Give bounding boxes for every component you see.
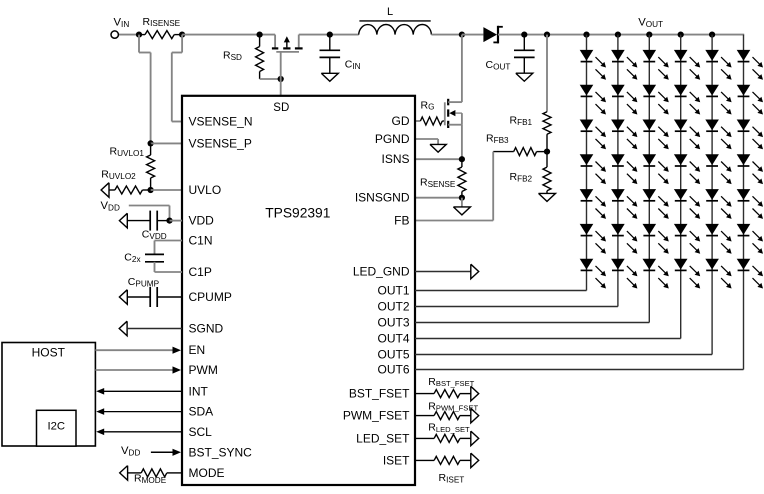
svg-text:TPS92391: TPS92391 <box>265 206 330 221</box>
pin PWM_FSET label <box>343 409 410 423</box>
svg-text:OUT4: OUT4 <box>377 332 409 346</box>
pin C1N label <box>189 234 213 248</box>
ground arrow at R_UVLO2 <box>101 183 109 198</box>
pin OUT1 label <box>377 284 409 298</box>
svg-text:LED_GND: LED_GND <box>353 265 410 279</box>
label R_FB3 <box>486 132 509 144</box>
svg-text:SD: SD <box>273 102 289 114</box>
label R_FB1 <box>510 115 533 127</box>
label C_2x <box>124 252 140 264</box>
wire SD to IC <box>280 79 282 96</box>
label HOST <box>32 345 66 359</box>
wire LED_GND pin <box>415 264 479 279</box>
wire V_DD to VDD pin <box>129 206 170 221</box>
pin OUT4 label <box>377 332 409 346</box>
svg-text:HOST: HOST <box>32 345 66 359</box>
ground arrow at R_MODE <box>120 466 128 481</box>
label R_UVLO1 <box>110 146 145 158</box>
LED string 3 (OUT3) <box>415 31 669 322</box>
pin EN label <box>189 343 206 357</box>
inductor L <box>359 21 432 35</box>
pin LED_SET label <box>356 431 410 445</box>
label R_LED_SET <box>428 422 470 434</box>
pin MODE label <box>189 466 225 480</box>
pin SD label <box>273 102 289 114</box>
svg-text:ISET: ISET <box>383 453 410 467</box>
label R_BST_FSET <box>428 376 474 388</box>
pin OUT6 label <box>377 363 409 377</box>
pin INT label <box>189 384 209 398</box>
node R_FB1 top junction <box>544 31 550 37</box>
wire PWM <box>95 366 181 373</box>
pin PGND label <box>375 132 410 146</box>
node VDD junction <box>166 218 172 224</box>
svg-text:UVLO: UVLO <box>189 183 222 197</box>
pin OUT3 label <box>377 316 409 330</box>
label I2C <box>48 421 66 433</box>
ground PGND <box>430 144 446 152</box>
label L <box>387 6 393 18</box>
pin CPUMP label <box>189 290 232 304</box>
svg-text:EN: EN <box>189 343 206 357</box>
wire SDA <box>96 408 182 415</box>
label R_G <box>421 99 435 111</box>
capacitor C_VDD <box>127 211 169 231</box>
resistor R_FB2 <box>543 152 551 194</box>
resistor R_BST_FSET <box>415 386 479 401</box>
wire rail to PMOS source <box>182 34 275 36</box>
wire INT <box>96 388 182 395</box>
ground R_FB2 <box>539 193 556 201</box>
pin GD label <box>392 114 410 128</box>
node A junction left of R_ISENSE <box>136 31 142 37</box>
pin PWM label <box>189 363 218 377</box>
LED string 4 (OUT4) <box>415 31 700 338</box>
resistor R_ISENSE <box>139 31 182 39</box>
nmos Q2 contacts <box>447 99 449 128</box>
node ISNSGND junction <box>459 195 465 201</box>
label R_SD <box>223 50 242 62</box>
label C_IN <box>345 59 361 71</box>
block I2C <box>37 410 77 446</box>
wire VSENSE_P sense line <box>139 35 151 144</box>
wire ISNS pin <box>415 158 462 160</box>
pmos Q1 source lead <box>274 35 276 48</box>
svg-text:SGND: SGND <box>189 322 224 336</box>
LED string 6 (OUT6) <box>415 35 763 370</box>
wire VDD pin stub <box>170 220 183 222</box>
svg-text:VSENSE_N: VSENSE_N <box>189 115 253 129</box>
ground arrow at SGND <box>119 321 127 336</box>
pin VSENSE_P label <box>189 136 252 150</box>
node SD junction <box>278 76 284 82</box>
label R_SENSE <box>420 177 456 189</box>
label V_DD at BST_SYNC <box>121 445 140 457</box>
diode D1 <box>483 26 502 44</box>
label V_DD supply <box>101 200 120 212</box>
pin ISNSGND label <box>355 191 410 205</box>
ground arrow at C_PUMP <box>119 290 127 305</box>
resistor R_MODE <box>128 469 182 477</box>
nmos Q2 gate bar <box>444 102 446 125</box>
node VSENSE_P junction <box>148 140 154 146</box>
svg-text:VSENSE_P: VSENSE_P <box>189 136 252 150</box>
nmos Q2 drain lead <box>448 35 462 103</box>
resistor R_ISET <box>415 453 479 468</box>
pmos Q1 gate lead <box>280 52 282 79</box>
pin VDD label <box>189 214 215 228</box>
pin FB label <box>394 214 409 228</box>
wire R_SD to SD gate <box>260 78 281 80</box>
label R_FB2 <box>510 171 533 183</box>
node B junction right of R_ISENSE <box>179 31 185 37</box>
wire diode to V_OUT rail <box>498 34 744 36</box>
wire ISNSGND pin <box>415 197 462 199</box>
pin UVLO label <box>189 183 222 197</box>
node FB divider junction <box>544 149 550 155</box>
wire boost node to diode <box>462 34 484 36</box>
label R_PWM_FSET <box>428 400 478 412</box>
ground arrow at C_VDD <box>119 213 127 228</box>
svg-text:MODE: MODE <box>189 466 225 480</box>
capacitor C_2x <box>145 254 164 261</box>
pin BST_FSET label <box>349 387 410 401</box>
svg-text:C1P: C1P <box>189 265 212 279</box>
pmos Q1 drain lead <box>298 35 300 48</box>
pin SGND label <box>189 322 224 336</box>
LED string 5 (OUT5) <box>415 31 732 354</box>
pin SDA label <box>189 405 214 419</box>
block HOST <box>2 343 95 447</box>
wire V_OUT to R_FB1 <box>546 35 548 112</box>
svg-text:VDD: VDD <box>189 214 215 228</box>
svg-text:OUT2: OUT2 <box>377 300 409 314</box>
node UVLO junction <box>148 187 154 193</box>
label V_OUT <box>638 17 663 29</box>
pin OUT2 label <box>377 300 409 314</box>
capacitor C_OUT <box>514 35 535 74</box>
pin BST_SYNC label <box>189 445 253 459</box>
pin VSENSE_N label <box>189 115 253 129</box>
resistor R_UVLO2 <box>109 186 151 194</box>
pin C1P label <box>189 265 212 279</box>
resistor R_FB3 <box>493 148 547 156</box>
svg-text:LED_SET: LED_SET <box>356 431 410 445</box>
LED string 2 (OUT2) <box>415 31 637 306</box>
label R_ISENSE <box>143 16 181 28</box>
wire PGND pin <box>415 139 438 144</box>
ground C_IN <box>321 73 338 81</box>
nmos Q2 source lead <box>448 125 462 160</box>
LED string 1 (OUT1) <box>415 31 606 290</box>
svg-text:C1N: C1N <box>189 234 213 248</box>
node C_IN junction <box>327 31 333 37</box>
ground ISNSGND <box>453 198 470 215</box>
svg-text:BST_SYNC: BST_SYNC <box>189 445 253 459</box>
pin ISET label <box>383 453 410 467</box>
resistor R_LED_SET <box>415 431 479 446</box>
svg-text:I2C: I2C <box>48 421 66 433</box>
svg-text:CPUMP: CPUMP <box>189 290 232 304</box>
resistor R_PWM_FSET <box>415 408 479 423</box>
resistor R_FB1 <box>543 112 551 152</box>
label TPS92391 <box>265 206 330 221</box>
node boost switch junction <box>459 31 465 37</box>
wire FB to R_FB3 <box>415 152 493 221</box>
node ISNS junction <box>459 156 465 162</box>
resistor R_G <box>420 117 444 125</box>
pmos Q1 contacts <box>272 47 303 49</box>
wire C2x to C1P <box>155 262 183 272</box>
wire VSENSE_N sense line <box>172 35 182 122</box>
resistor R_SD <box>256 35 264 79</box>
label C_PUMP <box>128 276 160 288</box>
capacitor C_IN <box>320 35 341 74</box>
svg-text:OUT6: OUT6 <box>377 363 409 377</box>
svg-text:OUT3: OUT3 <box>377 316 409 330</box>
svg-text:GD: GD <box>392 114 410 128</box>
wire EN <box>95 347 181 354</box>
pin ISNS label <box>381 152 409 166</box>
wire SGND pin <box>127 328 182 330</box>
label V_IN <box>114 17 130 29</box>
svg-text:ISNSGND: ISNSGND <box>355 191 410 205</box>
wire SCL <box>96 429 182 436</box>
label R_MODE <box>134 473 167 485</box>
op-amp U1 TPS92391 body <box>182 96 415 485</box>
svg-text:OUT5: OUT5 <box>377 348 409 362</box>
pmos Q1 body arrow <box>284 36 290 47</box>
resistor R_UVLO1 <box>147 143 155 190</box>
svg-text:ISNS: ISNS <box>381 152 409 166</box>
pin LED_GND label <box>353 265 410 279</box>
wire C1N to C2x <box>155 241 183 255</box>
wire BST_SYNC <box>151 449 181 456</box>
pin SCL label <box>189 425 213 439</box>
svg-text:FB: FB <box>394 214 409 228</box>
svg-text:BST_FSET: BST_FSET <box>349 387 410 401</box>
nmos Q2 body arrow <box>449 110 462 125</box>
capacitor C_PUMP <box>127 287 182 307</box>
wire UVLO pin stub <box>151 189 182 191</box>
label C_OUT <box>486 59 511 71</box>
svg-text:L: L <box>387 6 393 18</box>
label R_ISET <box>439 472 465 484</box>
node C_OUT junction <box>521 31 527 37</box>
ground C_OUT <box>516 73 533 81</box>
pin OUT5 label <box>377 348 409 362</box>
svg-text:PWM_FSET: PWM_FSET <box>343 409 410 423</box>
svg-text:INT: INT <box>189 384 209 398</box>
pmos Q1 gate bar <box>276 51 299 53</box>
wire PMOS drain to C_IN <box>299 34 359 36</box>
svg-text:OUT1: OUT1 <box>377 284 409 298</box>
resistor R_SENSE <box>458 159 466 198</box>
wire inductor to boost node <box>431 34 462 36</box>
wire V_IN to R_ISENSE <box>119 34 140 36</box>
wire VSENSE_P pin stub <box>151 142 182 144</box>
svg-text:SDA: SDA <box>189 405 214 419</box>
svg-text:PGND: PGND <box>375 132 410 146</box>
svg-text:SCL: SCL <box>189 425 213 439</box>
node R_SD top junction <box>257 31 263 37</box>
svg-text:PWM: PWM <box>189 363 218 377</box>
wire GD pin <box>415 120 420 122</box>
label R_UVLO2 <box>101 169 136 181</box>
terminal V_IN <box>111 31 118 38</box>
label C_VDD <box>142 228 167 240</box>
